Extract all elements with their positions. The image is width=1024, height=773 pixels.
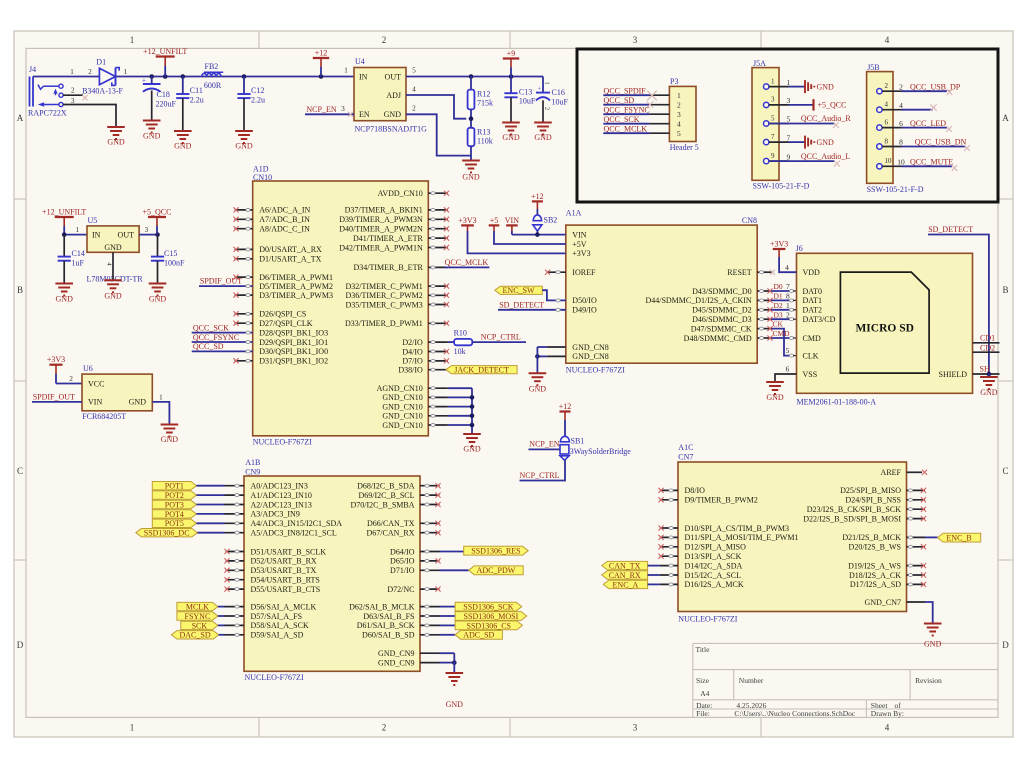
svg-text:QCC_FSYNC: QCC_FSYNC [193,333,239,342]
pin stub D70 (CN9 right) [420,502,441,507]
svg-text:2.2u: 2.2u [190,96,204,105]
svg-text:D14/I2C_A_SDA: D14/I2C_A_SDA [685,561,743,570]
svg-text:5: 5 [771,114,775,122]
svg-text:+9: +9 [507,49,516,58]
svg-text:Number: Number [739,676,764,685]
svg-text:1: 1 [787,78,791,87]
svg-text:C: C [17,466,23,476]
svg-text:GND_CN8: GND_CN8 [572,343,608,352]
net label QCC_SCK (CN10 D28) [192,323,253,334]
pin stub D7 (CN10 right) [428,358,449,363]
port flag CAN_TX (CN7 D14) [602,561,678,570]
svg-text:D21/I2S_B_MCK: D21/I2S_B_MCK [842,533,901,542]
svg-text:Drawn By:: Drawn By: [871,709,904,718]
port flag FSYNC (CN9 D57) [177,612,244,621]
port flag POT2 (CN9) [152,491,244,500]
svg-text:GND_CN9: GND_CN9 [378,649,414,658]
svg-text:2: 2 [544,107,551,110]
svg-text:+3V3: +3V3 [770,239,788,248]
title block [693,643,998,718]
svg-text:A1C: A1C [678,443,693,452]
svg-text:QCC_MUTE: QCC_MUTE [910,157,953,166]
svg-text:3: 3 [341,105,345,113]
svg-text:D3/TIMER_A_PWM3: D3/TIMER_A_PWM3 [259,291,333,300]
svg-text:D51/USART_B_SCLK: D51/USART_B_SCLK [251,547,327,556]
svg-text:D66/CAN_TX: D66/CAN_TX [367,519,415,528]
svg-text:1: 1 [771,77,775,85]
svg-text:DAT0: DAT0 [803,287,823,296]
power port +3V3 (U6) [47,355,82,383]
svg-text:GND: GND [56,295,74,304]
svg-text:5: 5 [786,346,790,355]
net label QCC_SCK (P3 pin 4) [603,115,649,124]
pin stub D31 (CN10 left) [233,358,252,363]
svg-text:VSS: VSS [803,370,818,379]
svg-text:D37/TIMER_A_BKIN1: D37/TIMER_A_BKIN1 [345,206,423,215]
svg-text:MCLK: MCLK [186,603,209,612]
svg-text:1: 1 [344,67,348,75]
ground GND (CN8) [529,373,547,393]
svg-text:2: 2 [382,35,387,45]
svg-text:QCC_Audio_L: QCC_Audio_L [801,152,850,161]
pin stub D68 (CN9 right) [420,483,441,488]
svg-text:GND: GND [817,138,835,147]
svg-text:ENC_A: ENC_A [613,580,639,589]
svg-text:GND: GND [149,295,167,304]
wire U5 input node [62,226,87,237]
svg-text:+: + [538,86,542,93]
port flag POT1 (CN9) [152,482,244,491]
svg-text:CD2: CD2 [980,343,995,352]
ground GND (J4 pin3) [107,127,125,147]
pin stub D12 (CN7 left) [658,544,678,549]
svg-text:C12: C12 [251,86,264,95]
port flag SSD1306_CS (CN9 D61) [420,621,522,630]
svg-text:Title: Title [696,645,711,654]
svg-text:IN: IN [92,230,101,239]
net CMD (CN8 to J6) [757,329,796,341]
bold black outline box [577,49,998,202]
power port +3V3 (J6 VDD) [770,239,797,272]
svg-text:1: 1 [159,393,163,401]
capacitor C16 10uF (polarized) [536,77,569,123]
net label NCP_CTRL (SB1) [520,460,566,480]
svg-text:GND: GND [924,640,942,649]
ground GND (C13) [502,123,520,143]
svg-text:D54/USART_B_RTS: D54/USART_B_RTS [251,576,320,585]
svg-text:D1: D1 [774,292,783,301]
svg-text:DAT1: DAT1 [803,296,823,305]
svg-text:1: 1 [130,35,135,45]
svg-text:D16/I2S_A_MCK: D16/I2S_A_MCK [685,580,744,589]
svg-text:D20/I2S_B_WS: D20/I2S_B_WS [849,543,901,552]
svg-text:SSD1306_CS: SSD1306_CS [467,621,511,630]
svg-text:CLK: CLK [803,351,819,360]
svg-text:D7/IO: D7/IO [402,357,423,366]
capacitor C11 2.2u [176,77,204,131]
svg-text:7: 7 [787,133,791,142]
svg-text:+12: +12 [559,402,572,411]
svg-text:CN10: CN10 [253,173,272,182]
svg-text:GND_CN10: GND_CN10 [382,402,422,411]
svg-text:D45/SDMMC_D2: D45/SDMMC_D2 [692,306,752,315]
pin stub D22 (CN7 right) [907,516,927,521]
port flag CAN_RX (CN7 D15) [602,571,678,580]
net label CD1 (J6) [973,334,1000,343]
svg-text:SHIELD: SHIELD [939,370,968,379]
ground GND (C11) [174,131,192,151]
svg-text:D53/USART_B_TX: D53/USART_B_TX [251,566,317,575]
port flag ENC_SW (CN8 D50) [495,286,566,302]
svg-text:8: 8 [899,138,903,147]
svg-text:POT5: POT5 [165,519,184,528]
port flag SSD1306_MOSI (CN9 D63) [420,612,527,621]
net label CD2 (J6) [973,343,1000,352]
ground GND (CN7) [924,624,942,649]
svg-text:D26/QSPI_CS: D26/QSPI_CS [259,310,306,319]
svg-text:GND_CN7: GND_CN7 [865,598,901,607]
pin stub AVDD_CN10 (CN10 right) [428,191,449,196]
svg-text:A8/ADC_C_IN: A8/ADC_C_IN [259,225,310,234]
svg-text:5: 5 [677,129,681,138]
svg-text:L78M05CDT-TR: L78M05CDT-TR [87,274,144,283]
svg-text:Size: Size [696,676,710,685]
svg-text:GND: GND [766,393,784,402]
svg-text:D68/I2C_B_SDA: D68/I2C_B_SDA [357,482,415,491]
net label QCC_MCLK (CN10 D34) [428,258,489,269]
wires CN9 GND_CN9 [420,653,457,672]
svg-text:NUCLEO-F767ZI: NUCLEO-F767ZI [245,673,304,682]
optical tx U6 FCR684205T [82,364,152,421]
port flag POT4 (CN9) [152,510,244,519]
svg-text:1: 1 [544,81,551,84]
pin stub D39 (CN10 right) [428,217,449,222]
svg-text:NCP_EN: NCP_EN [529,440,559,449]
svg-text:D65/IO: D65/IO [390,557,415,566]
pin stub D67 (CN9 right) [420,530,441,535]
net D1 (CN8 to J6) [757,292,796,303]
svg-text:B340A-13-F: B340A-13-F [82,86,123,95]
svg-text:1uF: 1uF [72,258,85,267]
svg-text:A6/ADC_A_IN: A6/ADC_A_IN [259,206,310,215]
pin stub D20 (CN7 right) [907,544,927,549]
pin stub D3 (CN10 left) [233,293,252,298]
svg-text:C:\Users\..\Nucleo Connections: C:\Users\..\Nucleo Connections.SchDoc [734,709,855,718]
svg-text:J5B: J5B [867,63,879,72]
pin stub D27 (CN10 left) [233,321,252,326]
net label QCC_MUTE (J5B pin10) [902,157,958,170]
svg-text:RESET: RESET [727,268,752,277]
svg-text:File:: File: [696,709,710,718]
svg-text:A7/ADC_B_IN: A7/ADC_B_IN [259,215,310,224]
svg-text:U4: U4 [355,57,365,66]
svg-text:D56/SAI_A_MCLK: D56/SAI_A_MCLK [251,602,317,611]
svg-text:SB1: SB1 [571,437,585,446]
svg-text:NCP718BSNADJT1G: NCP718BSNADJT1G [355,125,428,134]
svg-text:4: 4 [885,101,889,109]
svg-text:MICRO SD: MICRO SD [855,322,913,334]
svg-text:D23/I2S_B_CK/SPI_B_SCK: D23/I2S_B_CK/SPI_B_SCK [807,505,901,514]
regulator U5 L78M05CDT-TR [87,216,144,283]
net label QCC_SD (P3 pin 2) [603,96,653,108]
svg-text:2: 2 [899,82,903,91]
svg-text:AGND_CN10: AGND_CN10 [377,384,423,393]
svg-text:A0/ADC123_IN3: A0/ADC123_IN3 [251,482,308,491]
connector J6 MICRO SD MEM2061-01-188-00-A [796,244,973,406]
capacitor C14 1uF [58,235,85,283]
svg-text:Revision: Revision [915,676,942,685]
net label QCC_FSYNC (CN10 D29) [192,333,253,344]
net label QCC_Audio_R (J5A pin5) [769,114,851,128]
svg-text:ADJ: ADJ [386,91,401,100]
net label QCC_USB_DP (J5B pin2) [902,82,961,94]
svg-text:ADC_SD: ADC_SD [463,631,494,640]
svg-text:6: 6 [786,364,790,373]
wire U5 GND pin [112,252,114,280]
svg-text:+12_UNFILT: +12_UNFILT [143,47,187,56]
svg-text:D40/TIMER_A_PWM2N: D40/TIMER_A_PWM2N [339,225,423,234]
pin stub D23 (CN7 right) [907,507,927,512]
svg-text:GND: GND [502,133,520,142]
svg-text:D71/IO: D71/IO [390,566,415,575]
svg-text:GND: GND [384,110,402,119]
svg-text:POT1: POT1 [165,482,184,491]
solder bridge SB1 3WaySolderBridge [560,436,631,460]
svg-text:715k: 715k [477,99,493,108]
svg-text:GND: GND [446,700,464,709]
svg-text:+12: +12 [531,192,544,201]
svg-text:D61/SAI_B_SCK: D61/SAI_B_SCK [357,621,415,630]
pin stub D36 (CN10 right) [428,293,449,298]
power port +3V3 (CN8) [458,216,565,254]
svg-text:D13/SPI_A_SCK: D13/SPI_A_SCK [685,552,742,561]
port flag ADC_SD (CN9 D60) [420,630,502,639]
svg-text:QCC_SCK: QCC_SCK [604,115,640,124]
svg-text:SPDIF_OUT: SPDIF_OUT [200,277,242,286]
svg-text:4: 4 [677,119,681,128]
svg-text:QCC_SPDIF: QCC_SPDIF [604,87,647,96]
svg-text:C14: C14 [72,249,85,258]
net label QCC_Audio_L (J5A pin9) [769,152,850,166]
svg-text:J5A: J5A [753,59,766,68]
svg-text:9: 9 [771,152,775,160]
svg-text:D72/NC: D72/NC [387,585,414,594]
ground GND (C14) [55,284,73,304]
connector J5A SSW-105-21-F-D [752,59,810,191]
svg-text:D35/TIMER_C_PWM3: D35/TIMER_C_PWM3 [345,300,422,309]
pin stub D35 (CN10 right) [428,302,449,307]
wire J4 pin1 to D1 [33,76,99,78]
svg-text:+12_UNFILT: +12_UNFILT [42,207,86,216]
svg-text:C: C [1002,466,1008,476]
pin stub A7 (CN10 left) [233,217,252,222]
pin stub D13 (CN7 left) [658,554,678,559]
ground GND (U5) [104,280,122,300]
net CK (CN8 to J6 CLK) [757,319,796,357]
svg-text:D4/IO: D4/IO [402,347,423,356]
wire J4 pin3 to GND [63,105,116,127]
svg-text:D41/TIMER_A_ETR: D41/TIMER_A_ETR [353,234,423,243]
pin stub D19 (CN7 right) [907,563,927,568]
svg-text:C13: C13 [519,88,532,97]
port flag ENC_B (CN7 D21) [907,533,981,542]
port flag SSD1306_RES (CN9 D64) [420,546,528,555]
svg-text:D18/I2S_A_CK: D18/I2S_A_CK [849,571,901,580]
pin stub D41 (CN10 right) [428,236,449,241]
svg-text:D38/IO: D38/IO [398,366,423,375]
svg-text:QCC_Audio_R: QCC_Audio_R [801,114,851,123]
svg-text:D32/TIMER_C_PWM1: D32/TIMER_C_PWM1 [345,282,422,291]
svg-text:GND_CN10: GND_CN10 [382,393,422,402]
pin stub D24 (CN7 right) [907,497,927,502]
svg-text:D15/I2C_A_SCL: D15/I2C_A_SCL [685,571,742,580]
power +5_QCC (J5A pin3) [789,99,847,110]
svg-text:AVDD_CN10: AVDD_CN10 [378,189,423,198]
svg-text:QCC_MCLK: QCC_MCLK [445,258,489,267]
svg-text:D67/CAN_RX: D67/CAN_RX [366,529,414,538]
pin stub D26 (CN10 left) [233,311,252,316]
svg-text:D52/USART_B_RX: D52/USART_B_RX [251,557,317,566]
svg-text:ENC_SW: ENC_SW [503,286,535,295]
svg-text:3: 3 [633,723,638,733]
svg-text:SCK: SCK [192,621,208,630]
svg-text:100nF: 100nF [164,258,185,267]
svg-text:QCC_MCLK: QCC_MCLK [604,125,648,134]
svg-text:1: 1 [130,723,135,733]
ground GND (J6 VSS) [766,382,784,402]
pin stub D69 (CN9 right) [420,493,441,498]
connector P3 Header 5 [649,77,698,152]
wire main +12 rail [116,74,355,79]
svg-text:+5_QCC: +5_QCC [143,207,172,216]
svg-text:P3: P3 [670,77,678,86]
pin stub D65 (CN9 right) [420,558,441,563]
svg-text:D43/SDMMC_D0: D43/SDMMC_D0 [692,287,752,296]
svg-text:GND: GND [534,133,552,142]
svg-text:AREF: AREF [881,468,902,477]
svg-text:Header 5: Header 5 [670,143,699,152]
svg-text:+12: +12 [315,48,328,57]
svg-text:+: + [142,77,146,85]
svg-text:4: 4 [785,263,789,272]
svg-text:D6/TIMER_A_PWM1: D6/TIMER_A_PWM1 [259,273,333,282]
svg-text:1: 1 [75,226,79,234]
capacitor C18 220uF [142,77,177,121]
svg-text:POT2: POT2 [165,491,184,500]
svg-text:D11/SPI_A_MOSI/TIM_E_PWM1: D11/SPI_A_MOSI/TIM_E_PWM1 [685,533,799,542]
svg-text:CN9: CN9 [245,468,260,477]
svg-text:POT4: POT4 [165,510,184,519]
svg-text:D24/SPI_B_NSS: D24/SPI_B_NSS [845,496,901,505]
svg-text:2: 2 [69,375,73,383]
pin stub D55 (CN9 left) [224,587,244,592]
svg-text:D30/QSPI_BK1_IO0: D30/QSPI_BK1_IO0 [259,347,328,356]
svg-text:D39/TIMER_A_PWM3N: D39/TIMER_A_PWM3N [339,215,423,224]
net label QCC_SPDIF (P3 pin 1) [603,87,657,101]
svg-text:B: B [1002,285,1008,295]
power port +12_UNFILT [143,47,187,77]
pin stub D25 (CN7 right) [907,488,927,493]
regulator U4 NCP718BSNADJT1G [341,57,427,134]
capacitor C15 100nF [151,235,185,283]
svg-text:10uF: 10uF [552,97,569,106]
svg-text:D70/I2C_B_SMBA: D70/I2C_B_SMBA [350,500,414,509]
svg-text:OUT: OUT [385,72,402,81]
power port +12 (U4 input) [313,48,329,76]
svg-text:J4: J4 [29,65,36,74]
svg-text:OUT: OUT [118,230,135,239]
net label SPDIF_OUT (CN10 D5) [199,277,253,288]
svg-text:GND: GND [104,291,122,300]
svg-text:D3: D3 [774,310,783,319]
pin stub A8 (CN10 left) [233,226,252,231]
svg-text:ENC_B: ENC_B [946,534,971,543]
ferrite bead FB2 600R [202,62,223,90]
net label SD_DETECT (CN8 D49) [498,300,566,311]
svg-text:D69/I2C_B_SCL: D69/I2C_B_SCL [358,491,414,500]
svg-text:1: 1 [70,68,74,76]
svg-text:SSD1306_RES: SSD1306_RES [471,547,520,556]
port flag ENC_A (CN7 D16) [603,580,678,589]
pin stub IOREF (CN8) [545,270,566,275]
svg-text:10: 10 [897,158,905,167]
svg-text:+5_QCC: +5_QCC [818,101,847,110]
svg-text:FCR684205T: FCR684205T [82,412,126,421]
ground GND (SHIELD) [980,377,998,397]
IC A1D NUCLEO-F767ZI CN10 [253,165,429,447]
svg-text:A: A [17,113,24,123]
svg-text:CAN_RX: CAN_RX [609,571,641,580]
svg-text:D55/USART_B_CTS: D55/USART_B_CTS [251,585,321,594]
net label QCC_USB_DN (J5B pin8) [902,138,970,151]
svg-text:D12/SPI_A_MISO: D12/SPI_A_MISO [685,543,747,552]
svg-text:IOREF: IOREF [572,268,596,277]
svg-text:D31/QSPI_BK1_IO2: D31/QSPI_BK1_IO2 [259,357,328,366]
svg-text:QCC_USB_DP: QCC_USB_DP [910,82,961,91]
svg-text:IN: IN [359,72,368,81]
svg-text:D48/SDMMC_CMD: D48/SDMMC_CMD [684,334,752,343]
svg-text:SSD1306_MOSI: SSD1306_MOSI [464,612,519,621]
pin stub D0 (CN10 left) [233,247,252,252]
svg-text:VIN: VIN [88,398,102,407]
pin stub D37 (CN10 right) [428,207,449,212]
net D0 (CN8 to J6) [757,282,796,293]
svg-text:2: 2 [71,87,75,95]
svg-text:+3V3: +3V3 [47,355,65,364]
svg-text:GND: GND [463,445,481,454]
diode D1 B340A-13-F [82,58,128,96]
port flag SSD1306_DC (CN9 A5) [136,529,244,538]
svg-text:A3/ADC3_IN9: A3/ADC3_IN9 [251,510,300,519]
wire SHIELD to GND [988,374,990,377]
net label NCP_EN (SB1) [529,440,561,450]
svg-text:GND: GND [161,435,179,444]
svg-text:2.2u: 2.2u [251,96,265,105]
pin stub D42 (CN10 right) [428,245,449,250]
svg-text:600R: 600R [204,81,222,90]
svg-text:+5: +5 [490,216,499,225]
svg-text:D0/USART_A_RX: D0/USART_A_RX [259,245,322,254]
svg-text:D10/SPI_A_CS/TIM_B_PWM3: D10/SPI_A_CS/TIM_B_PWM3 [685,524,789,533]
resistor R13 110k [468,127,493,160]
svg-text:3WaySolderBridge: 3WaySolderBridge [570,447,632,456]
port flag ADC_PDW (CN9 D71) [420,566,523,575]
svg-text:SPDIF_OUT: SPDIF_OUT [33,393,75,402]
wire VIN row [512,232,566,237]
svg-text:9: 9 [787,152,791,161]
svg-text:CN7: CN7 [678,453,693,462]
ground GND (C18) [143,121,161,141]
